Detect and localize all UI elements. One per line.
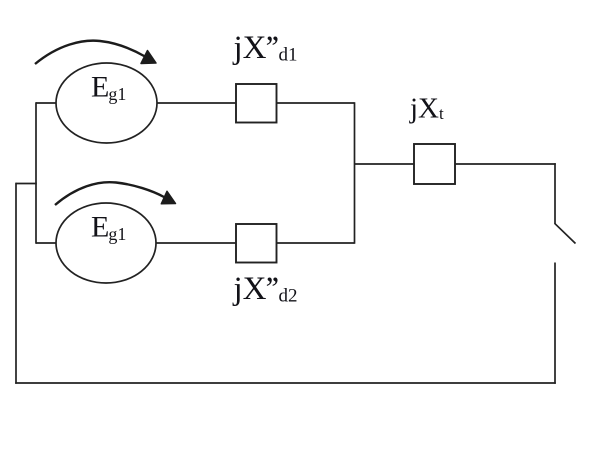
wire: X''d1 to junction node: [276, 102, 355, 104]
wire: junction to transformer reactance Xt: [355, 163, 415, 165]
generator source E_g1 (top): [56, 63, 157, 143]
svg-text:jXt: jXt: [409, 93, 444, 125]
svg-text:d1: d1: [279, 44, 298, 65]
wire: left inner vertical bus joining generators: [35, 102, 37, 244]
node: paralleling junction vertical: [354, 102, 356, 244]
svg-text:jX: jX: [233, 271, 267, 307]
svg-text:jX: jX: [233, 30, 267, 66]
current direction arrow over generator 2: [55, 182, 176, 205]
wire: generator 1 right lead to X''d1: [157, 102, 236, 104]
wire: bottom return conductor: [15, 382, 556, 384]
reactance X''d1 (box): [236, 84, 277, 123]
transformer reactance Xt (box): [414, 144, 455, 184]
svg-text:Eg1: Eg1: [91, 211, 126, 245]
reactance X''d2 (box): [236, 224, 277, 263]
current direction arrow over generator 1: [35, 41, 156, 64]
wire: jog from inner bus to return conductor: [16, 183, 37, 185]
svg-text:d2: d2: [279, 285, 298, 306]
wire: generator 2 left lead: [36, 242, 56, 244]
wire: right vertical down to switch blade: [554, 163, 556, 224]
wire: switch fixed contact down to bottom return: [554, 263, 556, 384]
generator source E_g1 (bottom): [56, 203, 156, 283]
wire: left outer vertical return conductor: [15, 183, 17, 384]
wire: generator 1 left lead: [36, 102, 56, 104]
wire: generator 2 right lead to X''d2: [156, 242, 236, 244]
wire: Xt to switch: [455, 163, 556, 165]
svg-text:Eg1: Eg1: [91, 71, 126, 105]
wire: X''d2 to junction node: [276, 242, 355, 244]
switch SW (open blade): [555, 223, 576, 243]
